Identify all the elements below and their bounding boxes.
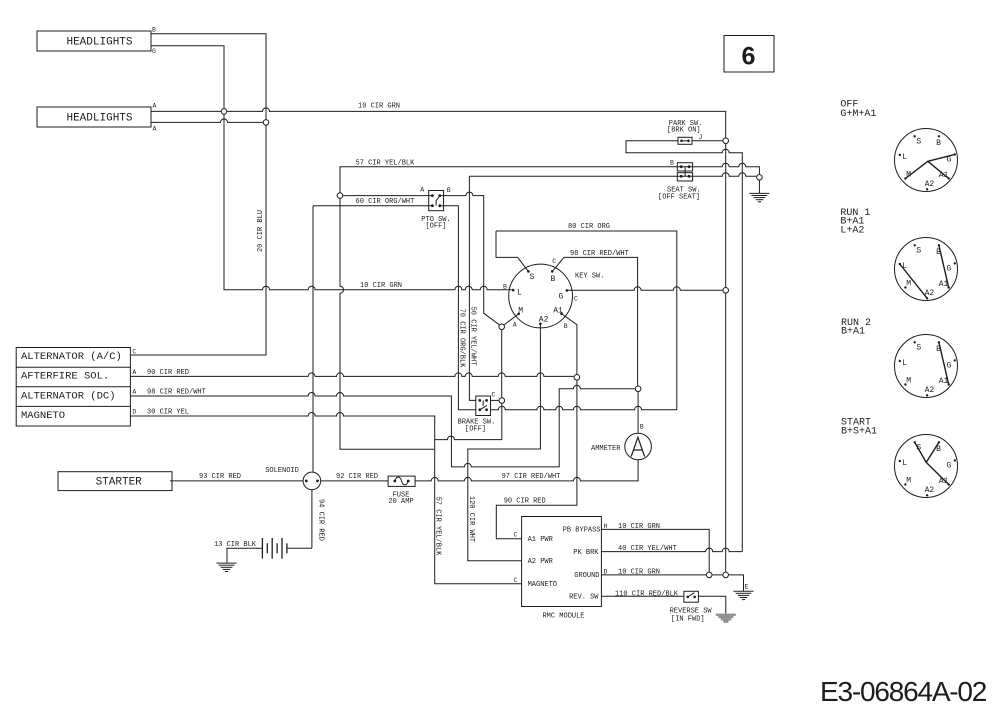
svg-text:E: E <box>745 584 749 591</box>
wire 20 CIR BLU column down to alternator AC wire <box>130 126 266 356</box>
svg-text:RMC MODULE: RMC MODULE <box>542 612 584 620</box>
svg-text:A: A <box>132 369 136 376</box>
svg-text:C: C <box>574 295 578 302</box>
svg-text:STARTER: STARTER <box>96 476 143 488</box>
wire key A2 column down to A2 PWR <box>468 324 541 561</box>
svg-text:70 CIR ORG/BLK: 70 CIR ORG/BLK <box>458 309 466 369</box>
svg-text:E3-06864A-02: E3-06864A-02 <box>820 676 987 707</box>
node: open circle junction at (224,111.4) <box>221 109 227 115</box>
svg-text:G: G <box>152 48 156 55</box>
fuse 20 AMP <box>388 476 415 486</box>
svg-text:MAGNETO: MAGNETO <box>21 410 65 422</box>
wire 13 CIR BLK battery to ground <box>227 548 262 563</box>
svg-text:60 CIR ORG/WHT: 60 CIR ORG/WHT <box>356 198 415 206</box>
svg-text:90 CIR RED: 90 CIR RED <box>147 369 189 377</box>
svg-text:L: L <box>902 459 907 468</box>
svg-text:A2: A2 <box>539 315 549 324</box>
wire PTO B to M-pin connector <box>440 192 500 325</box>
wire 97 CIR RED/WHT from fuse to ammeter bottom <box>416 460 639 481</box>
wire REV. SW to reverse switch <box>601 595 684 597</box>
svg-text:M: M <box>906 476 911 485</box>
svg-text:M: M <box>518 307 523 316</box>
svg-text:[OFF]: [OFF] <box>465 425 486 433</box>
svg-text:REVERSE SW: REVERSE SW <box>670 607 713 615</box>
node: open circle brake C (501.8,400.5) <box>499 398 505 404</box>
svg-text:B: B <box>564 323 568 330</box>
svg-text:D: D <box>132 408 136 415</box>
svg-text:A2: A2 <box>925 486 935 495</box>
svg-text:L: L <box>902 153 907 162</box>
svg-text:20 CIR BLU: 20 CIR BLU <box>257 210 265 252</box>
RMC module box <box>522 517 602 607</box>
svg-text:L+A2: L+A2 <box>840 226 864 237</box>
svg-text:A2: A2 <box>925 386 935 395</box>
ground (seat) <box>749 193 769 201</box>
svg-text:50 CIR YEL/WHT: 50 CIR YEL/WHT <box>469 307 477 366</box>
svg-text:PK BRK: PK BRK <box>573 549 599 557</box>
wire reverse switch to chassis ground <box>698 596 725 613</box>
wire headlight2 A top / 10 CIR GRN main run to right column <box>151 108 726 138</box>
ground E <box>734 591 754 599</box>
sheet number box 6 <box>724 36 774 73</box>
svg-text:57 CIR YEL/BLK: 57 CIR YEL/BLK <box>434 497 442 557</box>
wire 50 CIR YEL/WHT: seat lower wire down to brake TL <box>469 176 475 400</box>
starter box <box>58 472 172 491</box>
wire 80 CIR ORG across and down to brake BR <box>491 231 677 410</box>
svg-text:[OFF SEAT]: [OFF SEAT] <box>658 194 700 202</box>
wire seat lower run <box>469 173 756 176</box>
svg-text:HEADLIGHTS: HEADLIGHTS <box>66 36 132 48</box>
wire key G to right column <box>567 287 723 291</box>
svg-text:AFTERFIRE SOL.: AFTERFIRE SOL. <box>21 371 109 383</box>
svg-text:MAGNETO: MAGNETO <box>528 581 557 589</box>
wire brake BR loop down-left to x434 column <box>434 403 502 439</box>
wire 70 CIR ORG/BLK: PTO BR down to brake BL <box>440 206 476 410</box>
headlights box 1 <box>37 31 151 51</box>
svg-text:GROUND: GROUND <box>574 572 599 580</box>
svg-text:97 CIR RED/WHT: 97 CIR RED/WHT <box>502 473 561 481</box>
node: open circle key M connector (501.7,326.8) <box>499 324 505 330</box>
wire right ground column x725.7 segments <box>725 144 727 572</box>
svg-text:92 CIR RED: 92 CIR RED <box>336 473 378 481</box>
svg-text:S: S <box>530 273 535 282</box>
svg-text:KEY SW.: KEY SW. <box>575 273 604 281</box>
svg-text:6: 6 <box>742 43 756 71</box>
svg-text:10 CIR GRN: 10 CIR GRN <box>360 282 402 290</box>
svg-text:[IN FWD]: [IN FWD] <box>671 615 705 623</box>
svg-text:98 CIR RED/WHT: 98 CIR RED/WHT <box>147 389 206 397</box>
svg-text:20 AMP: 20 AMP <box>388 498 413 506</box>
key pin A1 <box>560 313 563 316</box>
svg-text:C: C <box>492 392 496 399</box>
svg-text:M: M <box>906 376 911 385</box>
svg-text:G: G <box>946 362 951 371</box>
key pin L <box>512 289 515 292</box>
svg-text:M: M <box>906 279 911 288</box>
svg-text:C: C <box>514 532 518 539</box>
key diagram RUN2 circle <box>895 335 958 398</box>
wire PK BRK 40 CIR YEL/WHT <box>601 548 742 551</box>
ground (battery) <box>217 563 237 571</box>
svg-text:G+M+A1: G+M+A1 <box>840 109 876 120</box>
svg-text:S: S <box>916 137 921 146</box>
wire park right to circle <box>692 140 723 142</box>
svg-text:10 CIR GRN: 10 CIR GRN <box>358 103 400 111</box>
svg-text:30 CIR YEL: 30 CIR YEL <box>147 408 189 416</box>
svg-text:A2 PWR: A2 PWR <box>528 558 554 566</box>
svg-text:B: B <box>447 187 451 194</box>
node: open circle ground wire at x725.7 <box>723 572 729 578</box>
svg-text:C: C <box>552 258 556 265</box>
svg-text:120 CIR WHT: 120 CIR WHT <box>467 496 475 542</box>
svg-text:PB BYPASS: PB BYPASS <box>563 527 601 535</box>
node: open circle ammeter top junction <box>635 386 641 392</box>
wire headlight1 G to node at x224 <box>151 46 224 108</box>
wire seat ground drop + ground symbol stem <box>758 180 760 193</box>
node: open circle seat/ground junction (759.4,177.3) <box>757 175 763 181</box>
svg-text:L: L <box>902 359 907 368</box>
node: open circle park junction (725.7,140.8) <box>723 138 729 144</box>
svg-text:94 CIR RED: 94 CIR RED <box>317 499 325 541</box>
wire key S to 80 CIR ORG riser <box>496 231 528 271</box>
component list box: ALTERNATOR (A/C) <box>16 348 130 427</box>
battery <box>262 538 287 559</box>
key diagram OFF circle <box>895 129 958 192</box>
svg-text:S: S <box>916 246 921 255</box>
svg-text:A: A <box>153 103 157 110</box>
svg-text:93 CIR RED: 93 CIR RED <box>199 473 241 481</box>
START contact lines B+S+A1 <box>915 442 949 484</box>
svg-text:HEADLIGHTS: HEADLIGHTS <box>66 112 132 124</box>
svg-text:L: L <box>517 289 522 298</box>
key diagram RUN1 circle <box>895 238 958 301</box>
ammeter <box>625 433 652 460</box>
svg-text:ALTERNATOR (DC): ALTERNATOR (DC) <box>21 390 116 402</box>
RUN1 contact lines B+A1, L+A2 <box>900 245 949 298</box>
wire M-circle column down to brake C <box>501 330 503 398</box>
svg-text:S: S <box>916 343 921 352</box>
svg-text:A: A <box>420 187 424 194</box>
wire 57 CIR YEL/BLK top run <box>340 163 759 192</box>
svg-text:B+A1: B+A1 <box>841 327 865 338</box>
wire 30 CIR YEL from magneto down x434.7 to RMC magneto pin <box>130 413 522 584</box>
OFF contact lines G+M+A1 <box>905 154 954 178</box>
svg-text:B: B <box>551 275 556 284</box>
chassis ground (gray) <box>716 614 736 623</box>
svg-text:SOLENOID: SOLENOID <box>265 467 299 475</box>
wire 94 CIR RED solenoid to battery <box>287 490 312 549</box>
wire 60 CIR ORG/WHT to PTO A <box>343 195 432 197</box>
solenoid circle <box>303 472 321 490</box>
node: open circle junction at (266,122.4) <box>263 120 269 126</box>
wire ammeter top to circle node <box>637 392 639 433</box>
reverse switch box <box>684 591 699 602</box>
node: open circle G junction (725.7,290.3) <box>723 288 729 294</box>
key pin S <box>527 270 530 273</box>
svg-text:G: G <box>946 462 951 471</box>
svg-text:REV. SW: REV. SW <box>569 594 599 602</box>
key pin M <box>517 313 520 316</box>
key switch KEY SW. <box>509 264 573 328</box>
svg-text:80 CIR ORG: 80 CIR ORG <box>568 223 610 231</box>
svg-text:90 CIR RED: 90 CIR RED <box>504 498 546 506</box>
svg-text:A: A <box>513 322 517 329</box>
svg-text:J: J <box>699 134 703 141</box>
svg-text:D: D <box>604 568 608 575</box>
node: open circle PB bypass to ground wire <box>706 572 712 578</box>
key pin G <box>566 289 569 292</box>
wire brake TR to C circle <box>491 399 499 401</box>
wire 10 CIR GRN second run from x224 to key L pin <box>224 115 512 290</box>
key pin B <box>551 270 554 273</box>
wire solenoid feed column from 60 CIR wire <box>313 206 432 472</box>
svg-text:A2: A2 <box>925 180 935 189</box>
svg-text:AMMETER: AMMETER <box>591 445 621 453</box>
svg-text:98 CIR RED/WHT: 98 CIR RED/WHT <box>570 250 629 258</box>
node: open circle on A1 column end of 90 CIR RED <box>574 375 580 381</box>
svg-text:ALTERNATOR (A/C): ALTERNATOR (A/C) <box>21 351 122 363</box>
PTO switch box <box>429 191 444 211</box>
headlights box 2 <box>37 107 151 127</box>
key diagram START circle <box>895 435 958 498</box>
svg-text:57 CIR YEL/BLK: 57 CIR YEL/BLK <box>356 160 416 168</box>
svg-text:A1: A1 <box>939 477 949 486</box>
svg-text:B: B <box>670 159 674 166</box>
wire park left loop to x742 column <box>626 141 742 552</box>
svg-text:G: G <box>946 265 951 274</box>
svg-text:B+S+A1: B+S+A1 <box>841 426 877 437</box>
svg-text:B: B <box>640 423 644 430</box>
wire 90 CIR RED from afterfire to A1 column <box>130 373 574 376</box>
svg-text:G: G <box>559 292 564 301</box>
svg-text:A: A <box>132 389 136 396</box>
svg-text:A1 PWR: A1 PWR <box>528 536 554 544</box>
wire PB BYPASS loop <box>601 529 709 571</box>
wire starter to solenoid <box>170 480 303 482</box>
wire headlight2 A bottom to circle <box>151 119 263 122</box>
wire key B / 98 CIR RED/WHT to ammeter column <box>552 257 637 385</box>
svg-text:110 CIR RED/BLK: 110 CIR RED/BLK <box>615 590 679 598</box>
wire headlight1 B to node at x266 <box>151 34 266 119</box>
wire GROUND run to E ground <box>601 575 743 591</box>
key pin A2 <box>539 323 542 326</box>
brake switch box <box>476 396 491 416</box>
svg-text:B: B <box>152 27 156 34</box>
svg-text:A: A <box>153 126 157 133</box>
wire 98 CIR RED/WHT from alternator DC down and over to x559 riser <box>130 385 635 467</box>
wire 92 CIR RED solenoid to fuse <box>321 480 389 482</box>
svg-text:B: B <box>503 283 507 290</box>
wire x340 column down to x434 tee <box>340 199 434 450</box>
svg-text:[BRK ON]: [BRK ON] <box>667 127 701 135</box>
wire key A1 column down <box>496 314 577 539</box>
svg-text:C: C <box>132 349 136 356</box>
RUN2 contact line B+A1 <box>939 342 949 384</box>
svg-text:[OFF]: [OFF] <box>425 223 446 231</box>
svg-text:C: C <box>514 577 518 584</box>
wire key M diagonal to connector <box>504 314 519 325</box>
svg-text:B: B <box>936 139 941 148</box>
node: open circle at (340,195.6) <box>337 193 343 199</box>
